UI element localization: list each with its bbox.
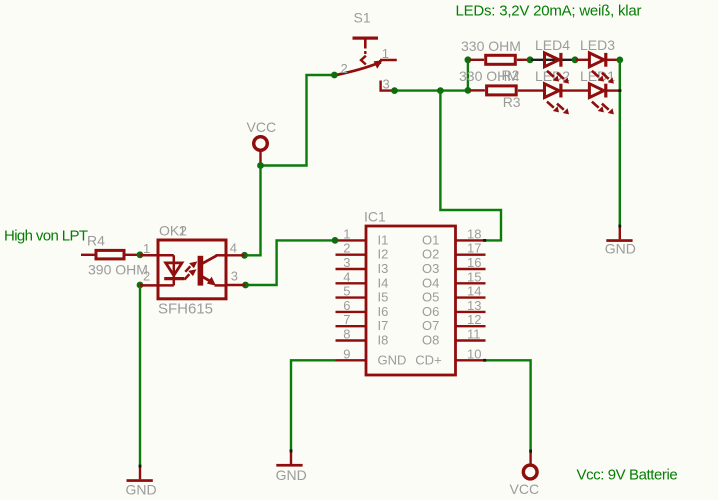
wire VCC junction to S1 pin 2 [261, 75, 335, 166]
junction row1 mid [572, 56, 579, 63]
svg-text:330 OHM: 330 OHM [459, 68, 519, 84]
svg-text:7: 7 [343, 312, 350, 327]
ground symbol right [606, 226, 632, 242]
svg-text:GND: GND [605, 240, 636, 256]
wire LED column down to GND [619, 60, 621, 226]
svg-text:O7: O7 [422, 318, 439, 333]
wire IC1 pin 9 to GND [291, 360, 336, 450]
wire S1 pin 3 to resistor column [395, 89, 468, 91]
wire OK1 pin 3 to IC1 pin 1 [246, 240, 336, 285]
svg-text:S1: S1 [354, 10, 371, 26]
svg-text:10: 10 [467, 346, 481, 361]
svg-text:330 OHM: 330 OHM [461, 38, 521, 54]
wire OK1 pin 2 down to GND [139, 285, 141, 466]
LED LED4 [545, 53, 570, 84]
pin contact tick LED column row2 [618, 89, 621, 92]
pin contact tick IC pin18 [483, 239, 486, 242]
svg-text:3: 3 [383, 76, 390, 91]
black net segment row1 [531, 59, 574, 61]
junction OK1 pin 4 [241, 252, 248, 259]
junction OK1 pin 2 [137, 282, 144, 289]
junction OK1 pin 3 [242, 282, 249, 289]
svg-text:I7: I7 [378, 318, 389, 333]
svg-text:1: 1 [343, 226, 350, 241]
LED LED3 [576, 53, 619, 84]
pin contact tick IC pin10 [483, 359, 486, 362]
svg-text:O2: O2 [422, 247, 439, 262]
supply symbol VCC top [254, 137, 268, 164]
resistor R3 [470, 86, 545, 95]
IC1 left pin numbers [343, 226, 350, 361]
junction at S1 pin 3 [391, 87, 398, 94]
svg-text:LED3: LED3 [580, 37, 615, 53]
junction VCC node [257, 162, 264, 169]
svg-text:18: 18 [467, 226, 481, 241]
svg-text:2: 2 [343, 241, 350, 256]
pin contact tick GND left [139, 465, 142, 468]
LED LED1 [589, 84, 621, 115]
svg-text:High von LPT: High von LPT [4, 228, 88, 245]
junction R4 to OK1 pin 1 [137, 251, 144, 258]
junction row2 left [465, 87, 472, 94]
pin contact tick GND right [618, 225, 621, 228]
IC1 right pin numbers [467, 226, 481, 361]
svg-text:17: 17 [467, 241, 481, 256]
svg-text:3: 3 [231, 269, 238, 284]
svg-text:VCC: VCC [510, 481, 540, 497]
svg-text:1: 1 [143, 241, 150, 256]
svg-text:16: 16 [467, 255, 481, 270]
svg-text:O3: O3 [422, 261, 439, 276]
svg-text:IC1: IC1 [364, 209, 386, 225]
svg-text:1: 1 [179, 223, 187, 239]
svg-text:O5: O5 [422, 290, 439, 305]
resistor R4 [81, 250, 140, 259]
ground symbol middle [276, 451, 302, 467]
optocoupler OK1 [140, 240, 246, 299]
svg-text:6: 6 [343, 298, 350, 313]
IC1 input pin names [378, 232, 407, 367]
svg-text:GND: GND [276, 467, 307, 483]
svg-text:VCC: VCC [247, 119, 277, 135]
pin contact tick VCC bottom [529, 450, 532, 453]
junction IC1 pin 1 [332, 237, 339, 244]
LED LED2 [545, 84, 590, 115]
wire IC1 pin 10 to VCC [486, 360, 531, 451]
resistor R2 [470, 55, 529, 64]
wire VCC node down to OK1 pin 4 [246, 166, 261, 256]
junction at S1 pin 2 [331, 72, 338, 79]
ground symbol left [127, 466, 153, 482]
svg-text:I5: I5 [378, 290, 389, 305]
svg-text:5: 5 [343, 284, 350, 299]
svg-text:R4: R4 [87, 233, 105, 249]
junction row1 right [616, 57, 623, 64]
svg-text:4: 4 [343, 269, 350, 284]
svg-text:R3: R3 [503, 94, 521, 110]
pin contact tick GND middle [290, 449, 293, 452]
junction row1 left [465, 56, 472, 63]
svg-text:15: 15 [467, 269, 481, 284]
svg-text:14: 14 [467, 284, 481, 299]
svg-text:8: 8 [343, 327, 350, 342]
svg-text:SFH615: SFH615 [158, 301, 213, 318]
svg-text:390 OHM: 390 OHM [88, 262, 148, 278]
IC1 output pin names [415, 232, 441, 367]
svg-text:CD+: CD+ [415, 352, 441, 367]
junction row1 after R2 [527, 56, 534, 63]
wire row2 junction down to IC pin 18 [440, 91, 501, 241]
junction row2 to IC pin18 net [437, 87, 444, 94]
svg-text:Vcc: 9V Batterie: Vcc: 9V Batterie [577, 467, 678, 484]
svg-text:O6: O6 [422, 304, 439, 319]
svg-text:O1: O1 [422, 232, 439, 247]
svg-text:2: 2 [143, 269, 150, 284]
svg-text:I3: I3 [378, 261, 389, 276]
svg-text:3: 3 [343, 255, 350, 270]
svg-text:LED4: LED4 [535, 37, 570, 53]
svg-text:2: 2 [341, 61, 348, 76]
svg-text:I4: I4 [378, 275, 389, 290]
IC1 left pin stubs 1-9 [336, 240, 367, 360]
svg-text:4: 4 [230, 241, 237, 256]
svg-text:I6: I6 [378, 304, 389, 319]
svg-text:LEDs: 3,2V 20mA; weiß, klar: LEDs: 3,2V 20mA; weiß, klar [456, 3, 642, 20]
svg-text:GND: GND [378, 352, 407, 367]
svg-text:I8: I8 [378, 333, 389, 348]
svg-text:I2: I2 [378, 247, 389, 262]
svg-text:1: 1 [382, 46, 389, 61]
supply symbol VCC bottom [523, 451, 537, 479]
svg-text:11: 11 [467, 327, 481, 342]
wire between resistor rows [467, 60, 469, 91]
IC IC1 body [366, 226, 456, 375]
switch S1 [337, 37, 397, 91]
svg-text:GND: GND [126, 482, 157, 498]
svg-text:9: 9 [343, 346, 350, 361]
svg-text:O4: O4 [422, 275, 439, 290]
svg-text:O8: O8 [422, 333, 439, 348]
IC1 right pin stubs 18-10 [456, 240, 486, 360]
svg-text:12: 12 [467, 312, 481, 327]
svg-text:13: 13 [467, 298, 481, 313]
svg-text:I1: I1 [378, 232, 389, 247]
